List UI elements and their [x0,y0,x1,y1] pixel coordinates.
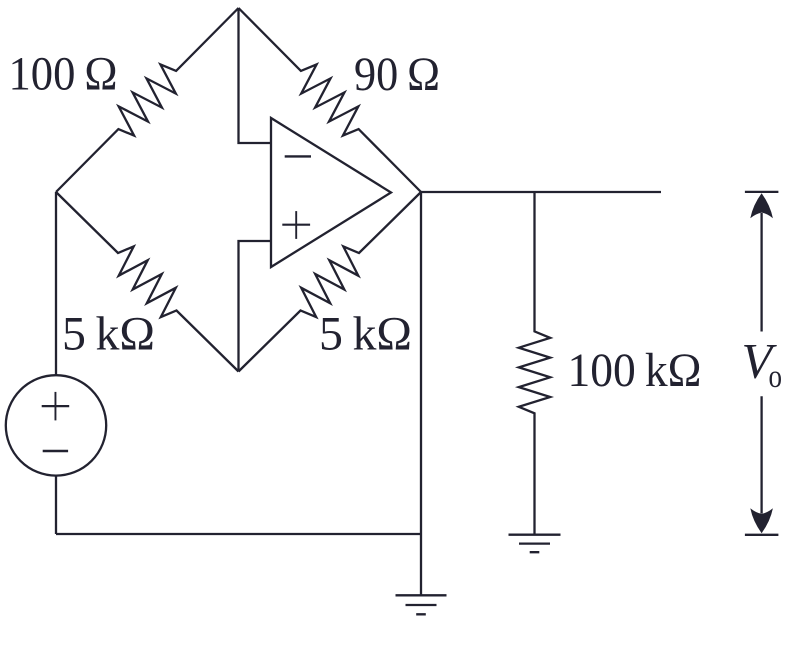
wire bottom return [56,533,421,535]
voltage source Vs circle [6,375,106,475]
svg-text:100 Ω: 100 Ω [9,48,118,101]
Vo annotation down arrow shaft [760,396,762,513]
ground G1 below output node [396,595,447,614]
voltage source plus sign horizontal [42,405,69,407]
resistor R2 90ohm top-right bridge arm [239,8,422,192]
svg-text:90 Ω: 90 Ω [354,48,440,101]
Vo annotation up arrowhead [750,193,773,218]
wire output node down to ground [420,192,422,595]
wire from top node to op-amp inverting input [239,8,272,143]
Vo annotation down arrowhead [750,508,773,533]
svg-text:o: o [769,359,783,395]
wire op-amp output node to the right [421,191,661,193]
svg-text:100 kΩ: 100 kΩ [568,344,702,397]
Vo annotation top tick [745,191,779,193]
voltage source Vs wire top [55,192,57,375]
op-amp inverting input minus sign [285,155,311,157]
op-amp non-inverting input plus sign horizontal [282,224,310,226]
resistor R5 100kohm load [519,192,550,535]
voltage source Vs wire bottom [55,476,57,534]
voltage source minus sign [43,450,68,453]
op-amp non-inverting input plus sign vertical [295,211,297,239]
op-amp U1 triangle [271,118,391,267]
resistor R1 100ohm top-left bridge arm [56,8,239,192]
svg-text:5 kΩ: 5 kΩ [62,308,155,361]
ground G2 below 100kohm [509,535,561,553]
svg-text:5 kΩ: 5 kΩ [319,308,412,361]
resistor R3 5kohm bottom-left bridge arm [56,192,239,372]
Vo annotation bottom tick [745,534,779,536]
Vo annotation up arrow shaft [760,213,762,332]
wire from bottom node to op-amp non-inverting input [239,241,272,372]
voltage source plus sign vertical [54,392,56,421]
resistor R4 5kohm bottom-right bridge arm [239,192,422,372]
